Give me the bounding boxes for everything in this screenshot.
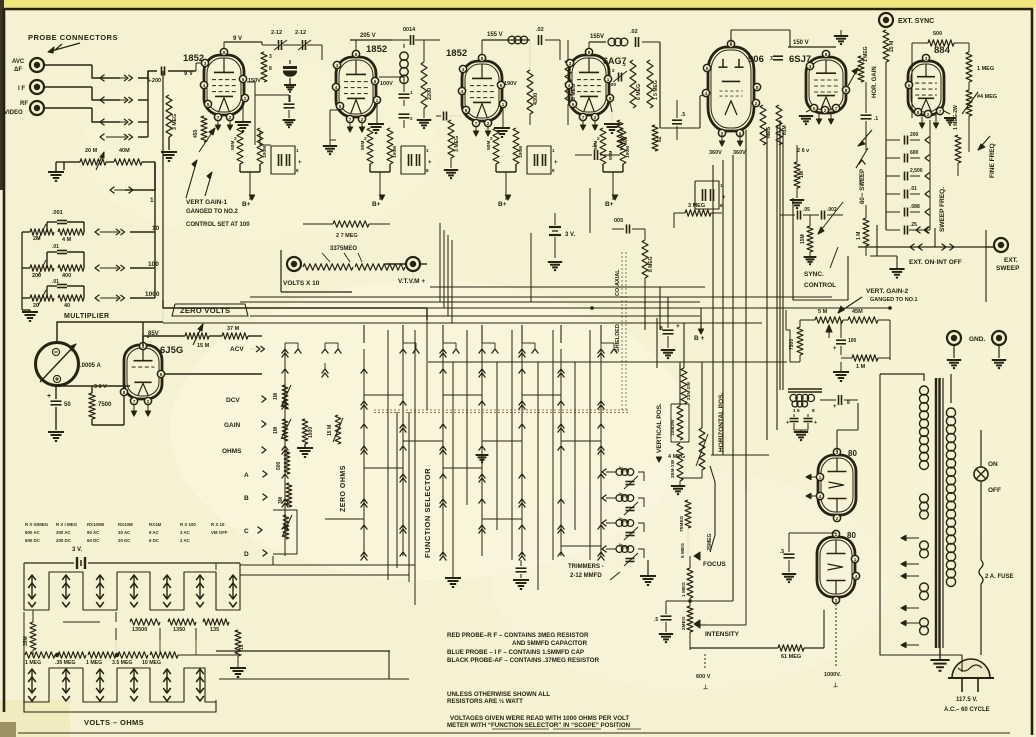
- capacitor box V3: [527, 146, 551, 174]
- svg-text:SHIELDED: SHIELDED: [615, 324, 621, 352]
- resistor row 135: [203, 619, 229, 625]
- svg-text:RX1M: RX1M: [149, 522, 162, 527]
- svg-text:80: 80: [848, 449, 857, 458]
- svg-text:100: 100: [608, 82, 616, 88]
- capacitor 001: [57, 220, 67, 222]
- svg-text:100V: 100V: [380, 81, 393, 87]
- resistor 450: [201, 116, 207, 142]
- svg-text:500: 500: [276, 461, 282, 470]
- capacitor 5-200: [161, 67, 163, 76]
- svg-text:HOR. GAIN: HOR. GAIN: [872, 66, 878, 98]
- svg-text:400: 400: [623, 136, 629, 145]
- svg-text:005: 005: [614, 218, 623, 224]
- svg-text:3: 3: [269, 54, 272, 60]
- wire focus wiper: [710, 466, 715, 552]
- svg-text:.5: .5: [592, 143, 596, 149]
- svg-text:RED PROBE–R F – CONTAINS 3MEG: RED PROBE–R F – CONTAINS 3MEG RESISTOR: [447, 632, 589, 639]
- svg-text:.0005 A: .0005 A: [80, 363, 101, 369]
- svg-text:VERTICAL POS.: VERTICAL POS.: [656, 403, 663, 453]
- svg-text:200: 200: [32, 273, 41, 279]
- svg-text:3: 3: [770, 56, 773, 62]
- ground trimmers: [640, 575, 656, 577]
- wire vtvm drop: [412, 271, 414, 287]
- arrow V5 pins: [719, 141, 724, 146]
- resistor 1500: [302, 419, 308, 444]
- svg-text:FINE FREQ: FINE FREQ: [989, 143, 996, 178]
- svg-text:2200: 2200: [427, 88, 433, 100]
- wire transformer top: [880, 374, 924, 381]
- capacitor 8 center: [663, 329, 674, 331]
- trimmer 2-12 b: [302, 40, 304, 50]
- wire 155V b: [589, 41, 606, 43]
- transformer winding L5: [920, 618, 929, 627]
- svg-text:5-200: 5-200: [147, 78, 161, 84]
- svg-text:8: 8: [845, 88, 848, 93]
- svg-text:VERT. GAIN-2: VERT. GAIN-2: [866, 288, 909, 295]
- resistor 6MEG V6: [760, 105, 766, 145]
- svg-text:8: 8: [825, 52, 828, 57]
- capacitor 100: [836, 339, 846, 341]
- ground int: [659, 633, 673, 635]
- potentiometer 15M sync: [807, 226, 813, 252]
- wire chain mid: [689, 598, 691, 648]
- svg-text:50: 50: [64, 402, 71, 408]
- wire feed x590: [589, 188, 591, 233]
- svg-text:GANGED TO NO.2: GANGED TO NO.2: [186, 209, 239, 215]
- wire jack buses: [44, 64, 92, 66]
- resistor 1M pot b: [282, 419, 288, 441]
- svg-text:8: 8: [609, 96, 612, 101]
- resistor 3MEG V3: [448, 120, 454, 158]
- svg-text:A.C.– 60 CYCLE: A.C.– 60 CYCLE: [944, 707, 990, 713]
- svg-text:100M: 100M: [392, 146, 398, 158]
- svg-text:.5: .5: [780, 549, 784, 555]
- svg-text:5: 5: [465, 108, 468, 113]
- trimmer coil 3: [616, 520, 623, 527]
- wire center verticals: [712, 165, 714, 455]
- capacitor ext row: [916, 227, 921, 234]
- svg-text:A: A: [244, 472, 249, 479]
- wire bus y316: [250, 315, 700, 317]
- wire selector jumpers: [364, 394, 403, 396]
- svg-text:5: 5: [813, 106, 816, 111]
- wire selector verticals: [387, 330, 389, 580]
- resistor 27MEG: [333, 221, 369, 227]
- svg-text:I F: I F: [18, 86, 25, 92]
- svg-text:8: 8: [812, 408, 815, 414]
- wire plug left: [880, 374, 962, 672]
- svg-text:117.5 V.: 117.5 V.: [956, 697, 978, 703]
- wire mult left bus2: [22, 231, 30, 233]
- svg-text:1 MEG: 1 MEG: [863, 46, 869, 62]
- svg-text:+: +: [676, 323, 680, 330]
- resistor 2MEG: [687, 606, 693, 632]
- svg-text:7: 7: [939, 109, 942, 114]
- svg-text:15: 15: [239, 644, 245, 650]
- resistor 400: [58, 265, 84, 271]
- transformer secondary: [946, 408, 955, 417]
- arrow V8 pins: [806, 474, 811, 479]
- capacitor .01b: [57, 284, 67, 286]
- svg-text:7: 7: [475, 121, 478, 126]
- wire collector to cap: [138, 71, 157, 78]
- resistor 1.5MEG: [647, 60, 653, 108]
- wire V9 top: [789, 532, 836, 534]
- svg-text:MULTIPLIER: MULTIPLIER: [64, 313, 109, 320]
- svg-text:BLUE PROBE – I F – CONTAINS 1.: BLUE PROBE – I F – CONTAINS 1.5MMFD CAP: [447, 649, 584, 656]
- svg-text:EXT.: EXT.: [1004, 257, 1018, 264]
- svg-text:1 6: 1 6: [793, 408, 800, 414]
- wire bottom rail: [216, 650, 390, 652]
- svg-text:FUNCTION SELECTOR: FUNCTION SELECTOR: [423, 468, 432, 558]
- svg-text:80: 80: [847, 531, 856, 540]
- svg-text:.088: .088: [910, 204, 920, 210]
- arrow V7 pins: [919, 123, 924, 128]
- svg-text:500: 500: [933, 31, 942, 37]
- capacitor .02 a: [538, 35, 540, 45]
- resistor 3-8 V1: [261, 52, 267, 82]
- svg-text:1852: 1852: [446, 48, 467, 59]
- arrow vert gain2: [838, 297, 862, 313]
- transformer taps: [901, 535, 906, 540]
- trimmer cap 3: [626, 532, 635, 534]
- resistor row megs: [25, 652, 55, 658]
- svg-text:.02: .02: [536, 27, 544, 33]
- trimmer 2-12 a: [278, 40, 280, 50]
- plug AC: [952, 659, 990, 678]
- potentiometer arrow 450: [199, 128, 215, 152]
- svg-text:ΔF: ΔF: [14, 67, 22, 73]
- svg-text:10: 10: [152, 225, 160, 232]
- resistor 6MEG: [630, 60, 636, 108]
- resistor 45M: [848, 317, 878, 323]
- wire hpos horizontals: [711, 454, 769, 456]
- wire 906 top: [730, 30, 732, 44]
- wire feed x440: [439, 223, 441, 302]
- capacitor V2b: [399, 113, 410, 115]
- volts-ohms lower arrows: [28, 669, 36, 674]
- ground transformer: [930, 659, 949, 661]
- resistor 3375MEG: [303, 264, 353, 270]
- svg-text:1852: 1852: [366, 44, 387, 55]
- ground selector c: [476, 454, 489, 456]
- wire bus y287: [430, 286, 705, 288]
- svg-text:B +: B +: [694, 335, 705, 342]
- transformer interstage: [790, 394, 797, 401]
- svg-text:EXT. ON·INT OFF: EXT. ON·INT OFF: [909, 259, 962, 266]
- svg-text:15 M: 15 M: [197, 343, 210, 349]
- svg-text:1: 1: [607, 77, 610, 82]
- ground V9 cap: [782, 573, 796, 575]
- svg-text:.2: .2: [622, 62, 626, 67]
- svg-text:1: 1: [376, 98, 379, 103]
- wire vo mid: [32, 610, 34, 622]
- wire selector column drops: [363, 325, 365, 343]
- svg-text:B: B: [244, 495, 249, 502]
- svg-text:3 V.: 3 V.: [565, 232, 575, 238]
- svg-text:50M: 50M: [230, 141, 236, 150]
- ground vo: [230, 667, 246, 669]
- tube V2 1852: [336, 57, 376, 117]
- svg-text:5: 5: [756, 85, 759, 90]
- svg-text:4: 4: [203, 83, 206, 88]
- svg-text:VOLTAGES GIVEN WERE READ W: VOLTAGES GIVEN WERE READ WITH 1000 OHMS …: [450, 715, 629, 722]
- coil V4 out: [608, 38, 616, 46]
- svg-text:B+: B+: [605, 201, 614, 208]
- jack EXT SWEEP: [994, 238, 1008, 252]
- svg-text:1: 1: [854, 557, 857, 562]
- network V1 bias: [237, 128, 243, 164]
- svg-text:30 AC: 30 AC: [118, 530, 131, 535]
- ground 1500: [297, 447, 313, 449]
- svg-text:6 MEG: 6 MEG: [636, 84, 642, 100]
- svg-text:HORIZONTAL POS.: HORIZONTAL POS.: [718, 392, 725, 452]
- tube V5 906: [708, 47, 754, 131]
- svg-text:4 MEG: 4 MEG: [668, 454, 685, 460]
- tube V4 6AG7: [569, 55, 609, 115]
- svg-text:360V: 360V: [709, 150, 722, 156]
- ground mult bottom: [22, 311, 38, 313]
- wire 80a top: [836, 430, 838, 452]
- svg-text:1000V.: 1000V.: [824, 672, 841, 678]
- svg-text:15 M: 15 M: [327, 425, 333, 436]
- svg-text:.002: .002: [827, 207, 837, 213]
- svg-text:100M: 100M: [625, 146, 631, 158]
- svg-text:2MEG: 2MEG: [681, 616, 687, 630]
- resistor 40M: [114, 159, 142, 165]
- wire sweep right: [929, 140, 931, 230]
- capacitor selector: [516, 567, 527, 569]
- capacitor V3 grid: [443, 112, 445, 121]
- svg-text:OFF: OFF: [988, 487, 1001, 494]
- resistor 75MEG: [685, 500, 691, 528]
- svg-text:R X 10: R X 10: [211, 522, 225, 527]
- resistor 25M-1W: [677, 443, 683, 481]
- svg-text:300 AC: 300 AC: [56, 530, 72, 535]
- svg-text:1 5 MEG: 1 5 MEG: [653, 80, 659, 100]
- arrow 6J5G pins: [131, 411, 136, 416]
- svg-text:7: 7: [349, 117, 352, 122]
- svg-text:1 MEG: 1 MEG: [86, 660, 102, 666]
- svg-text:ACV: ACV: [230, 346, 244, 353]
- ground dark cap: [284, 84, 296, 86]
- svg-text:.01: .01: [52, 279, 59, 285]
- resistor row 1350: [168, 619, 196, 625]
- svg-text:.05: .05: [803, 207, 810, 213]
- capacitor box V1: [271, 146, 295, 174]
- svg-text:900 AC: 900 AC: [25, 530, 41, 535]
- svg-text:1 MEG: 1 MEG: [681, 582, 687, 597]
- svg-text:3: 3: [569, 61, 572, 66]
- transformer core: [935, 378, 937, 648]
- svg-text:5: 5: [160, 372, 163, 377]
- svg-text:DCV: DCV: [226, 397, 240, 404]
- capacitor .5 int: [661, 615, 672, 617]
- jack VTVM+: [406, 257, 420, 271]
- wire V1 grid: [196, 70, 204, 72]
- svg-text:5: 5: [207, 102, 210, 107]
- svg-text:3 MEG: 3 MEG: [172, 114, 178, 130]
- svg-text:.5: .5: [654, 617, 658, 623]
- svg-text:600 V: 600 V: [696, 674, 711, 680]
- dashed shield vertical: [621, 252, 623, 410]
- wire 85V: [147, 336, 149, 338]
- wire bottom crossbars: [240, 564, 415, 566]
- resistor 500: [928, 40, 954, 46]
- svg-text:155 V: 155 V: [487, 32, 503, 38]
- svg-text:7: 7: [217, 115, 220, 120]
- svg-text:2: 2: [836, 516, 839, 521]
- svg-text:GAIN: GAIN: [224, 422, 241, 429]
- resistor 1MEG hor: [858, 56, 864, 82]
- svg-text:.35 MEG: .35 MEG: [55, 660, 75, 666]
- svg-text:.001: .001: [52, 210, 63, 216]
- ground selector a: [445, 577, 461, 579]
- tube V1 1852: [204, 55, 244, 115]
- wire bus y323: [163, 322, 762, 324]
- svg-text:4: 4: [705, 91, 708, 96]
- svg-text:200 DC: 200 DC: [56, 538, 72, 543]
- capacitor .002: [821, 211, 823, 220]
- trimmer V4: [618, 73, 620, 82]
- lamp ON OFF: [974, 467, 988, 481]
- resistor 1M vg: [852, 355, 878, 361]
- jack AVC-AF: [30, 58, 44, 72]
- arrow V6 pins: [816, 119, 821, 124]
- network V4 bias: [600, 128, 606, 164]
- switch arrow ACV: [256, 346, 260, 352]
- svg-text:.5: .5: [681, 112, 685, 118]
- junction dots megs: [55, 653, 59, 657]
- potentiometer 15M: [185, 333, 209, 339]
- svg-text:.01: .01: [52, 244, 59, 250]
- svg-text:1500: 1500: [308, 427, 314, 438]
- svg-text:8: 8: [269, 66, 272, 72]
- svg-text:5: 5: [706, 66, 709, 71]
- svg-text:+: +: [47, 393, 51, 400]
- svg-text:3: 3: [462, 67, 465, 72]
- switch arrows input row3: [100, 119, 105, 126]
- wire right verticals: [732, 297, 734, 362]
- volts-ohms lower squarewave: [24, 668, 66, 705]
- potentiometer 5M: [815, 317, 843, 323]
- wire 155V a: [482, 39, 530, 41]
- ground selector b: [513, 579, 529, 581]
- wire lamp: [980, 481, 982, 560]
- svg-text:1852: 1852: [183, 53, 204, 64]
- jack RF-VIDEO: [30, 101, 44, 115]
- svg-text:2-12: 2-12: [271, 30, 282, 36]
- svg-text:2: 2: [229, 115, 232, 120]
- svg-text:VM OFF: VM OFF: [211, 530, 228, 535]
- ground gnd1: [947, 359, 961, 361]
- svg-text:AVC: AVC: [12, 59, 25, 65]
- svg-text:R X IOMEG: R X IOMEG: [25, 522, 49, 527]
- svg-text:82: 82: [657, 136, 663, 142]
- jack EXT SYNC: [879, 13, 893, 27]
- svg-text:1 MEG: 1 MEG: [977, 66, 994, 72]
- svg-text:+: +: [833, 346, 837, 352]
- wire V1 capbox: [260, 144, 271, 146]
- ground 1M V6: [790, 199, 804, 201]
- svg-text:⊥: ⊥: [833, 682, 838, 689]
- wire 9V trimmers: [261, 42, 263, 45]
- ground V3: [494, 127, 510, 129]
- wire vg box: [786, 330, 800, 362]
- tube V8 80: [818, 455, 856, 515]
- svg-text:600 DC: 600 DC: [25, 538, 41, 543]
- tube V7 884: [908, 61, 944, 115]
- svg-text:40: 40: [64, 303, 70, 309]
- resistor 10M2W: [677, 406, 683, 440]
- jack GND 2: [992, 331, 1006, 345]
- svg-text:BLACK PROBE-AF – CONTAINS .37M: BLACK PROBE-AF – CONTAINS .37MEG RESISTO…: [447, 657, 600, 664]
- svg-text:10 MEG: 10 MEG: [142, 660, 161, 666]
- wire acv: [209, 335, 222, 337]
- resistor 3M right: [685, 210, 711, 216]
- trimmer coil 1: [616, 469, 623, 476]
- svg-text:3375MEO: 3375MEO: [330, 246, 357, 252]
- svg-text:2-12: 2-12: [295, 30, 306, 36]
- svg-text:75MEG: 75MEG: [679, 515, 685, 532]
- svg-text:SYNC.: SYNC.: [804, 271, 824, 278]
- svg-text:13500: 13500: [132, 627, 147, 633]
- switch ext-int: [858, 246, 994, 248]
- arrow V1 pins: [215, 125, 220, 130]
- wire mult left bus: [21, 232, 23, 310]
- svg-text:2 7 MEG: 2 7 MEG: [336, 233, 358, 239]
- svg-text:2: 2: [755, 101, 758, 106]
- svg-text:200: 200: [910, 132, 919, 138]
- wire meter top: [57, 322, 163, 342]
- svg-text:B+: B+: [242, 201, 251, 208]
- svg-text:GND.: GND.: [969, 336, 985, 343]
- svg-text:37 M: 37 M: [227, 326, 240, 332]
- resistor fine: [955, 135, 961, 163]
- resistor 7500: [89, 393, 95, 419]
- jack IF: [30, 80, 44, 94]
- svg-text:25M-1W: 25M-1W: [670, 459, 676, 478]
- svg-text:.25MEG: .25MEG: [707, 534, 713, 552]
- resistor 3MEG input: [166, 95, 172, 137]
- arrow FOCUS: [688, 555, 700, 557]
- switch contacts function selector grid: [282, 349, 289, 354]
- vert gain arrows: [186, 160, 197, 198]
- ground gnd2: [992, 359, 1006, 361]
- svg-text:6 DC: 6 DC: [149, 538, 160, 543]
- resistor 20M: [80, 159, 106, 165]
- svg-text:90 AC: 90 AC: [87, 530, 100, 535]
- arrow vert pos: [656, 457, 661, 462]
- svg-text:5: 5: [908, 83, 911, 88]
- switch arrows input row1: [100, 75, 105, 82]
- svg-text:8: 8: [588, 50, 591, 55]
- wire bus y308: [250, 307, 890, 309]
- svg-text:400: 400: [62, 273, 71, 279]
- svg-text:TRIMMERS -: TRIMMERS -: [568, 564, 604, 570]
- ground 3MEG: [161, 151, 177, 153]
- transformer primary top: [920, 386, 929, 395]
- svg-text:100: 100: [148, 261, 159, 268]
- svg-text:INTENSITY: INTENSITY: [705, 631, 740, 638]
- resistor 5M: [286, 483, 292, 507]
- resistor 7500 vg: [797, 327, 803, 355]
- svg-text:+: +: [298, 160, 302, 166]
- resistor 37M: [222, 333, 248, 339]
- wire bus y302: [240, 301, 700, 303]
- wire ladder right: [125, 162, 155, 190]
- capacitor is1: [790, 418, 799, 420]
